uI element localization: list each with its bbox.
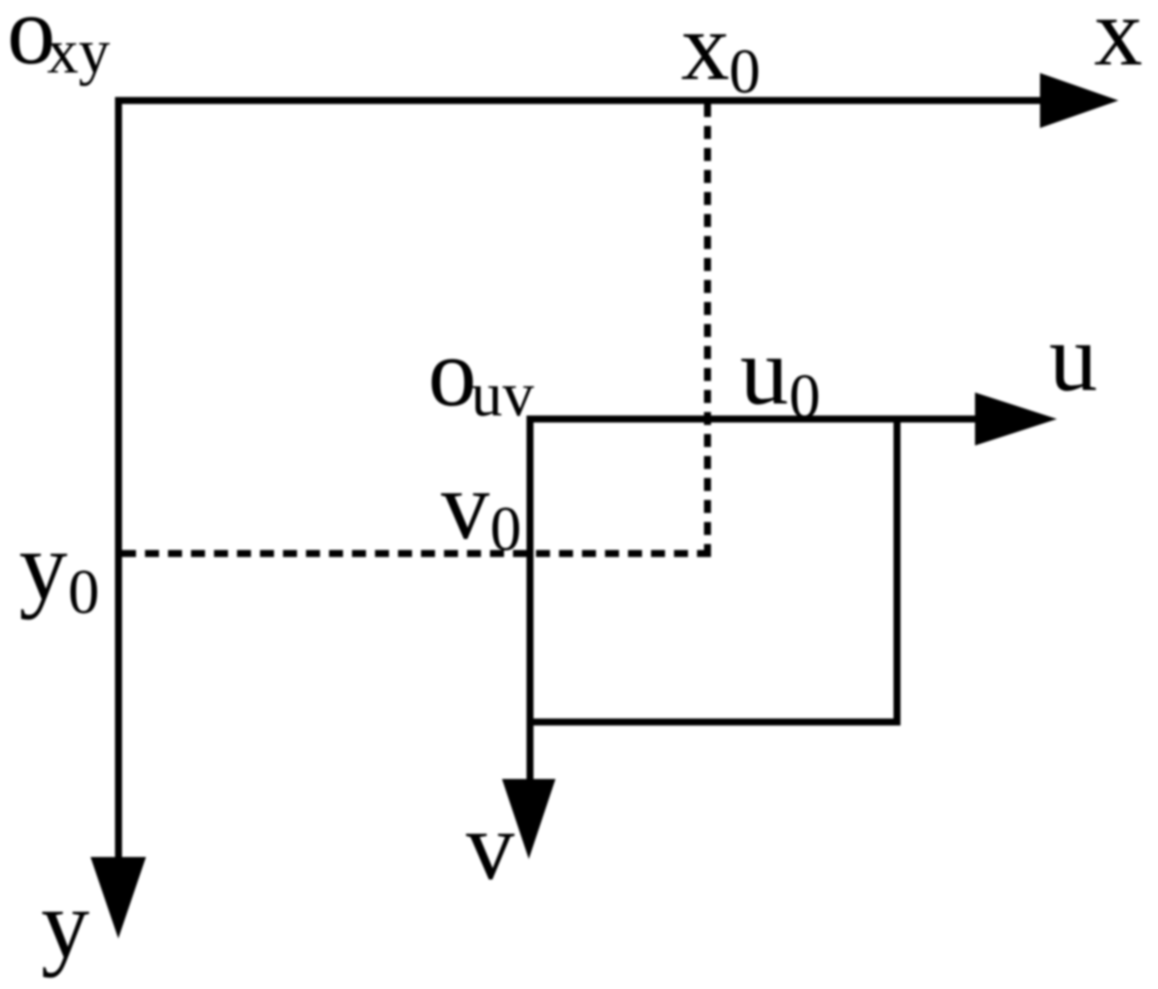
svg-text:uv: uv bbox=[471, 360, 535, 430]
svg-text:u: u bbox=[1049, 304, 1098, 411]
svg-text:0: 0 bbox=[490, 494, 522, 564]
svg-text:x: x bbox=[681, 0, 730, 100]
svg-text:y: y bbox=[41, 871, 90, 978]
svg-text:0: 0 bbox=[729, 37, 761, 107]
svg-text:v: v bbox=[441, 452, 490, 559]
svg-text:v: v bbox=[466, 793, 515, 900]
svg-text:xy: xy bbox=[47, 17, 111, 87]
svg-text:y: y bbox=[19, 513, 68, 620]
svg-text:o: o bbox=[428, 319, 477, 426]
svg-text:x: x bbox=[1094, 0, 1143, 86]
svg-text:0: 0 bbox=[789, 362, 821, 432]
svg-text:u: u bbox=[740, 318, 789, 425]
svg-text:0: 0 bbox=[68, 557, 100, 627]
